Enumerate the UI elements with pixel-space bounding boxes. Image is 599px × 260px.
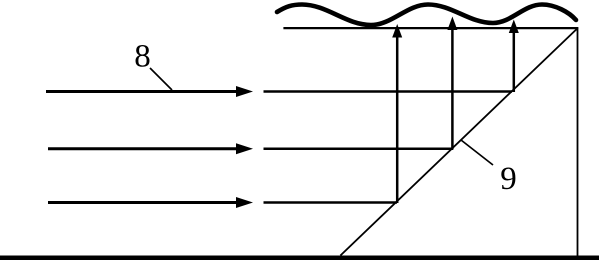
wavy water surface <box>277 5 576 26</box>
ray 2 continuation to mirror <box>264 148 454 151</box>
label 9 leader line <box>461 140 493 165</box>
incident ray arrow 1 head <box>236 86 253 97</box>
ground (bottom thick line) <box>0 256 599 260</box>
incident ray arrow 2 head <box>236 143 253 154</box>
svg-text:8: 8 <box>134 39 151 75</box>
incident ray arrow 2 shaft <box>48 147 240 150</box>
reflected ray 2 shaft (vertical) <box>451 30 454 150</box>
label 8 leader line <box>150 68 172 90</box>
svg-text:9: 9 <box>500 161 517 197</box>
top surface baseline <box>283 27 578 29</box>
mirror 9 (diagonal) <box>340 28 577 256</box>
reflected ray 2 head <box>447 17 457 31</box>
incident ray arrow 1 shaft <box>46 90 240 93</box>
incident ray arrow 3 head <box>236 197 253 208</box>
reflected ray 1 head <box>392 24 402 38</box>
reflected ray 3 head <box>509 20 519 34</box>
ray 3 continuation to mirror <box>264 201 398 204</box>
reflected ray 1 shaft (vertical) <box>396 31 399 203</box>
ray 1 continuation to mirror <box>264 90 513 93</box>
right vertical edge <box>577 27 579 257</box>
incident ray arrow 3 shaft <box>48 201 240 204</box>
reflected ray 3 shaft (vertical) <box>513 32 516 92</box>
